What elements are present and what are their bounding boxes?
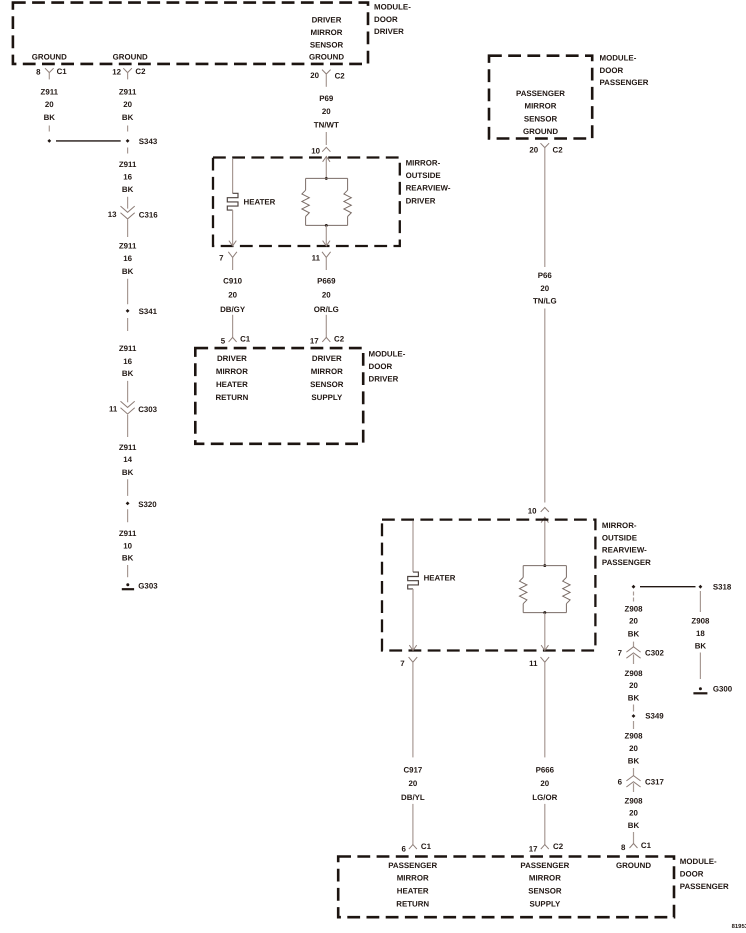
- wire below S349: [633, 721, 635, 729]
- heater element (passenger): [408, 572, 456, 589]
- wire below C316: [127, 220, 129, 238]
- svg-text:18: 18: [696, 629, 705, 638]
- label MODULE-DOOR PASSENGER (top): [600, 53, 649, 87]
- wire P66 lower segment: [544, 309, 546, 503]
- svg-text:MIRROR: MIRROR: [397, 874, 429, 883]
- wire into C317: [633, 768, 635, 776]
- svg-text:11: 11: [109, 404, 118, 413]
- resistor pair (driver mirror sensor): [302, 178, 351, 225]
- svg-text:G303: G303: [138, 582, 158, 591]
- svg-text:14: 14: [123, 455, 132, 464]
- module box: MODULE-DOOR PASSENGER (top): [489, 56, 592, 139]
- svg-text:10: 10: [311, 147, 320, 156]
- net label PASSENGER MIRROR HEATER RETURN: [388, 861, 437, 909]
- connector pin 11 (driver sensor supply): [312, 252, 331, 270]
- svg-text:DOOR: DOOR: [369, 362, 393, 371]
- wire P666 upper segment: [544, 672, 546, 757]
- splice S318: [632, 583, 732, 592]
- wire label C917 20 DB/YL: [401, 766, 425, 802]
- svg-text:DRIVER: DRIVER: [406, 196, 436, 205]
- svg-text:10: 10: [123, 542, 132, 551]
- svg-text:RETURN: RETURN: [396, 900, 429, 909]
- svg-text:GROUND: GROUND: [32, 53, 67, 62]
- svg-text:17: 17: [310, 337, 319, 346]
- svg-text:DRIVER: DRIVER: [312, 354, 342, 363]
- connector C2 pin 20 (passenger): [529, 143, 563, 157]
- svg-text:DOOR: DOOR: [680, 869, 704, 878]
- svg-text:MODULE-: MODULE-: [600, 53, 637, 62]
- wire stub below S318 (left): [633, 592, 635, 602]
- svg-text:C2: C2: [334, 335, 345, 344]
- svg-text:8: 8: [621, 843, 626, 852]
- connector C1 pin 5: [221, 335, 251, 346]
- net label GROUND (pin 8 passenger): [616, 861, 651, 870]
- svg-text:Z911: Z911: [41, 88, 59, 97]
- connector C2 pin 12: [112, 67, 146, 79]
- wire below S341: [127, 318, 129, 331]
- module box: MIRROR-OUTSIDE REARVIEW-DRIVER: [213, 158, 400, 247]
- svg-text:PASSENGER: PASSENGER: [600, 78, 649, 87]
- svg-text:DRIVER: DRIVER: [374, 27, 404, 36]
- svg-text:8: 8: [36, 68, 41, 77]
- svg-text:S343: S343: [139, 137, 158, 146]
- svg-text:17: 17: [529, 844, 538, 853]
- wire label P69 20 TN/WT: [314, 94, 339, 129]
- svg-text:20: 20: [228, 291, 237, 300]
- wire label Z911 16 BK (S343 to C316): [119, 160, 137, 194]
- svg-text:PASSENGER: PASSENGER: [680, 882, 729, 891]
- svg-text:Z911: Z911: [119, 88, 137, 97]
- wire into C316: [127, 197, 129, 209]
- svg-text:C2: C2: [553, 842, 564, 851]
- svg-text:MIRROR: MIRROR: [311, 367, 343, 376]
- svg-text:20: 20: [45, 100, 54, 109]
- svg-text:C2: C2: [135, 67, 146, 76]
- wire into G300: [699, 653, 701, 680]
- node at top of driver sensor resistors: [325, 177, 328, 180]
- svg-text:GROUND: GROUND: [113, 53, 148, 62]
- node at bottom of driver sensor resistors: [325, 224, 328, 227]
- exit arrow sensor (passenger): [541, 613, 548, 651]
- wire into S320: [127, 479, 129, 496]
- svg-text:81953: 81953: [732, 923, 746, 930]
- wire label Z908 18 BK (S318 to G300): [691, 616, 710, 650]
- net label DRIVER MIRROR SENSOR SUPPLY: [310, 354, 344, 402]
- svg-text:PASSENGER: PASSENGER: [520, 861, 569, 870]
- connector half pin 10 (driver mirror): [311, 147, 330, 156]
- wire heater branch (driver, top): [232, 159, 234, 193]
- connector C1 pin 8 (passenger ground): [621, 841, 652, 852]
- svg-text:6: 6: [618, 778, 623, 787]
- svg-text:BK: BK: [122, 267, 134, 276]
- svg-text:MODULE-: MODULE-: [369, 350, 406, 359]
- svg-text:BK: BK: [122, 185, 134, 194]
- svg-text:C2: C2: [335, 72, 346, 81]
- svg-text:BK: BK: [628, 630, 640, 639]
- svg-text:TN/WT: TN/WT: [314, 120, 339, 129]
- svg-text:DOOR: DOOR: [374, 15, 398, 24]
- svg-text:DB/YL: DB/YL: [401, 793, 425, 802]
- wire into S341: [127, 279, 129, 304]
- svg-text:20: 20: [123, 100, 132, 109]
- connector pin 11 (passenger sensor supply): [529, 657, 549, 672]
- wire label P66 20 TN/LG: [533, 271, 557, 305]
- svg-text:HEATER: HEATER: [397, 887, 429, 896]
- svg-text:7: 7: [400, 659, 405, 668]
- svg-text:20: 20: [409, 779, 418, 788]
- wire stub below S343: [127, 148, 129, 154]
- wire label Z908 20 BK (C302 to S349): [625, 669, 644, 703]
- svg-text:BK: BK: [628, 821, 640, 830]
- svg-text:Z911: Z911: [119, 529, 137, 538]
- module box: MODULE-DOOR DRIVER (bottom): [195, 348, 363, 444]
- svg-text:LG/OR: LG/OR: [532, 793, 557, 802]
- svg-text:S320: S320: [138, 500, 157, 509]
- svg-text:20: 20: [322, 107, 331, 116]
- resistor pair (passenger mirror sensor): [520, 566, 571, 613]
- svg-text:PASSENGER: PASSENGER: [388, 861, 437, 870]
- wire label Z908 20 BK (S318 to C302): [625, 605, 644, 639]
- svg-text:7: 7: [219, 254, 224, 263]
- splice S343: [47, 137, 157, 146]
- svg-text:6: 6: [402, 844, 407, 853]
- svg-text:C303: C303: [138, 405, 157, 414]
- svg-text:PASSENGER: PASSENGER: [602, 558, 651, 567]
- heater element (driver): [227, 193, 275, 210]
- svg-text:Z911: Z911: [119, 344, 137, 353]
- wire into C1 pin 8: [633, 832, 635, 844]
- wire heater branch (passenger, top): [412, 521, 414, 572]
- wire label Z911 14 BK (C303 to S320): [119, 443, 137, 477]
- wire into C303: [127, 381, 129, 402]
- svg-text:OUTSIDE: OUTSIDE: [602, 533, 637, 542]
- svg-text:Z908: Z908: [625, 669, 644, 678]
- label MIRROR-OUTSIDE REARVIEW-PASSENGER: [602, 521, 651, 567]
- wire label Z908 20 BK (S349 to C317): [625, 732, 644, 766]
- svg-text:20: 20: [529, 145, 538, 154]
- net label PASSENGER MIRROR SENSOR GROUND: [516, 89, 565, 136]
- svg-text:DB/GY: DB/GY: [220, 305, 246, 314]
- connector C303 pin 11: [109, 401, 158, 414]
- sheet number 81953: [732, 923, 746, 930]
- svg-text:12: 12: [112, 68, 121, 77]
- entry arrow pin 10 into driver mirror: [323, 157, 330, 179]
- label MODULE-DOOR DRIVER (top right of box): [374, 3, 411, 36]
- module box: MODULE-DOOR PASSENGER (bottom): [338, 857, 674, 918]
- splice S341: [126, 307, 158, 316]
- splice S349: [632, 712, 665, 721]
- svg-text:20: 20: [629, 616, 638, 625]
- svg-text:C2: C2: [553, 145, 564, 154]
- net label PASSENGER MIRROR SENSOR SUPPLY: [520, 861, 569, 909]
- svg-text:SENSOR: SENSOR: [310, 41, 344, 50]
- wire Z911 stub above S343 (left): [48, 126, 50, 132]
- svg-text:20: 20: [540, 284, 549, 293]
- svg-text:HEATER: HEATER: [216, 380, 248, 389]
- svg-text:20: 20: [629, 809, 638, 818]
- svg-text:Z908: Z908: [625, 605, 644, 614]
- svg-text:SENSOR: SENSOR: [310, 380, 344, 389]
- net label GROUND (pin 8): [32, 53, 67, 62]
- svg-text:Z908: Z908: [625, 732, 644, 741]
- wire below S320: [127, 509, 129, 522]
- connector C302 pin 7: [618, 647, 665, 658]
- svg-text:BK: BK: [695, 642, 707, 651]
- svg-text:BK: BK: [122, 369, 134, 378]
- svg-text:BK: BK: [122, 113, 134, 122]
- svg-text:RETURN: RETURN: [215, 393, 248, 402]
- wire label Z911 16 BK (C316 to S341): [119, 242, 137, 277]
- exit arrow heater return (driver): [229, 210, 236, 246]
- svg-text:13: 13: [108, 210, 117, 219]
- svg-text:C316: C316: [139, 211, 158, 220]
- svg-text:REARVIEW-: REARVIEW-: [602, 546, 647, 555]
- label MODULE-DOOR DRIVER (bottom): [369, 350, 406, 384]
- svg-text:MIRROR: MIRROR: [525, 102, 557, 111]
- svg-text:DRIVER: DRIVER: [217, 354, 247, 363]
- svg-text:P66: P66: [538, 271, 553, 280]
- svg-text:GROUND: GROUND: [523, 127, 558, 136]
- svg-text:G300: G300: [713, 684, 733, 693]
- svg-text:C1: C1: [421, 842, 432, 851]
- wire label Z911 20 BK (pin 12 drop): [119, 88, 137, 122]
- wire below S318 (right drop): [699, 591, 701, 612]
- svg-text:20: 20: [322, 291, 331, 300]
- svg-text:16: 16: [123, 173, 132, 182]
- svg-text:Z911: Z911: [119, 242, 137, 251]
- svg-text:MIRROR-: MIRROR-: [406, 159, 441, 168]
- svg-text:Z908: Z908: [625, 797, 644, 806]
- wire label Z911 16 BK (S341 to C303): [119, 344, 137, 378]
- svg-text:20: 20: [310, 71, 319, 80]
- svg-text:BK: BK: [628, 756, 640, 765]
- svg-text:11: 11: [529, 659, 538, 668]
- exit arrow heater return (passenger): [409, 589, 416, 651]
- svg-text:PASSENGER: PASSENGER: [516, 89, 565, 98]
- svg-text:11: 11: [312, 254, 321, 263]
- svg-text:16: 16: [123, 254, 132, 263]
- connector C316 pin 13: [108, 206, 159, 219]
- svg-text:SUPPLY: SUPPLY: [529, 900, 561, 909]
- svg-text:S349: S349: [645, 712, 664, 721]
- ground G303: [122, 582, 158, 591]
- wire into C1 pin 5: [232, 315, 234, 338]
- svg-text:HEATER: HEATER: [424, 574, 456, 583]
- connector C317 pin 6: [618, 776, 665, 787]
- net label GROUND (pin 12): [113, 53, 148, 62]
- wire into C1 pin 6: [412, 804, 414, 845]
- svg-text:P69: P69: [319, 94, 334, 103]
- label MIRROR-OUTSIDE REARVIEW-DRIVER: [406, 159, 451, 206]
- svg-text:S318: S318: [713, 583, 732, 592]
- svg-text:C302: C302: [645, 649, 664, 658]
- connector C1 pin 6: [402, 842, 432, 853]
- node at top of passenger sensor resistors: [543, 564, 546, 567]
- wire into G303: [127, 565, 129, 577]
- svg-text:5: 5: [221, 337, 226, 346]
- connector half pin 10 (passenger mirror): [528, 507, 549, 516]
- svg-text:SENSOR: SENSOR: [528, 887, 562, 896]
- svg-text:20: 20: [540, 779, 549, 788]
- wire into C2 pin 17: [325, 315, 327, 338]
- svg-text:GROUND: GROUND: [616, 861, 651, 870]
- svg-text:16: 16: [123, 357, 132, 366]
- svg-text:C910: C910: [223, 277, 242, 286]
- svg-text:7: 7: [618, 649, 623, 658]
- connector C2 pin 17 (passenger): [529, 842, 564, 853]
- wire label Z908 20 BK (C317 to C1): [625, 797, 644, 831]
- node at bottom of passenger sensor resistors: [543, 611, 546, 614]
- connector C2 pin 17: [310, 335, 345, 346]
- connector C1 pin 8: [36, 67, 67, 79]
- svg-text:C917: C917: [403, 766, 422, 775]
- svg-text:MIRROR: MIRROR: [216, 367, 248, 376]
- exit arrow sensor (driver): [323, 225, 330, 246]
- svg-text:P669: P669: [317, 277, 336, 286]
- svg-text:DOOR: DOOR: [600, 66, 624, 75]
- svg-text:DRIVER: DRIVER: [312, 15, 342, 24]
- wire into S349: [633, 705, 635, 712]
- svg-text:BK: BK: [122, 468, 134, 477]
- connector pin 7 (driver heater return): [219, 252, 237, 270]
- svg-text:Z911: Z911: [119, 160, 137, 169]
- svg-text:BK: BK: [122, 553, 134, 562]
- net label DRIVER MIRROR HEATER RETURN: [215, 354, 248, 402]
- svg-text:DRIVER: DRIVER: [369, 375, 399, 384]
- svg-text:C1: C1: [240, 335, 251, 344]
- wire below C302: [633, 655, 635, 665]
- svg-text:C317: C317: [645, 778, 664, 787]
- svg-text:MIRROR: MIRROR: [529, 874, 561, 883]
- wire label P669 20 OR/LG: [314, 277, 339, 314]
- svg-text:BK: BK: [44, 113, 56, 122]
- entry arrow pin 10 into passenger mirror: [541, 517, 548, 565]
- svg-text:SENSOR: SENSOR: [524, 114, 558, 123]
- wire below C303: [127, 415, 129, 437]
- svg-text:S341: S341: [139, 307, 158, 316]
- svg-text:Z911: Z911: [119, 443, 137, 452]
- connector pin 7 (passenger heater return): [400, 657, 417, 672]
- svg-text:P666: P666: [536, 766, 555, 775]
- wire label Z911 10 BK (S320 to G303): [119, 529, 137, 562]
- svg-text:C1: C1: [641, 841, 652, 850]
- wire C917 upper segment: [412, 672, 414, 757]
- svg-text:C1: C1: [57, 67, 68, 76]
- svg-text:MIRROR: MIRROR: [311, 28, 343, 37]
- wire Z911 stub above S343 (right): [127, 126, 129, 132]
- wire label Z911 20 BK (pin 8 drop): [41, 88, 59, 122]
- wire into C2 pin 17 (passenger): [544, 804, 546, 845]
- module box: MODULE-DOOR DRIVER (top): [13, 3, 368, 64]
- splice S320: [126, 500, 158, 509]
- label MODULE-DOOR PASSENGER (bottom): [680, 857, 729, 891]
- svg-text:MIRROR-: MIRROR-: [602, 521, 637, 530]
- wire label C910 20 DB/GY: [220, 277, 246, 314]
- svg-text:GROUND: GROUND: [309, 53, 344, 62]
- svg-text:REARVIEW-: REARVIEW-: [406, 184, 451, 193]
- wire label P666 20 LG/OR: [532, 766, 557, 802]
- svg-text:MODULE-: MODULE-: [680, 857, 717, 866]
- svg-text:TN/LG: TN/LG: [533, 297, 557, 306]
- svg-text:Z908: Z908: [691, 616, 710, 625]
- svg-text:10: 10: [528, 507, 537, 516]
- svg-text:SUPPLY: SUPPLY: [311, 393, 343, 402]
- connector C2 pin 20: [310, 70, 345, 87]
- svg-text:OUTSIDE: OUTSIDE: [406, 171, 441, 180]
- svg-text:MODULE-: MODULE-: [374, 3, 411, 12]
- svg-text:BK: BK: [628, 693, 640, 702]
- svg-text:HEATER: HEATER: [244, 197, 276, 206]
- net label DRIVER MIRROR SENSOR GROUND (pin 20): [309, 15, 344, 61]
- wire into C302: [633, 642, 635, 647]
- svg-text:OR/LG: OR/LG: [314, 305, 339, 314]
- ground G300: [693, 684, 732, 693]
- svg-text:20: 20: [629, 744, 638, 753]
- module box: MIRROR-OUTSIDE REARVIEW-PASSENGER: [382, 520, 595, 651]
- wire into mirror connector pin 10: [325, 132, 327, 145]
- wire below C317: [633, 783, 635, 792]
- wire P66 upper segment: [544, 157, 546, 267]
- svg-text:20: 20: [629, 681, 638, 690]
